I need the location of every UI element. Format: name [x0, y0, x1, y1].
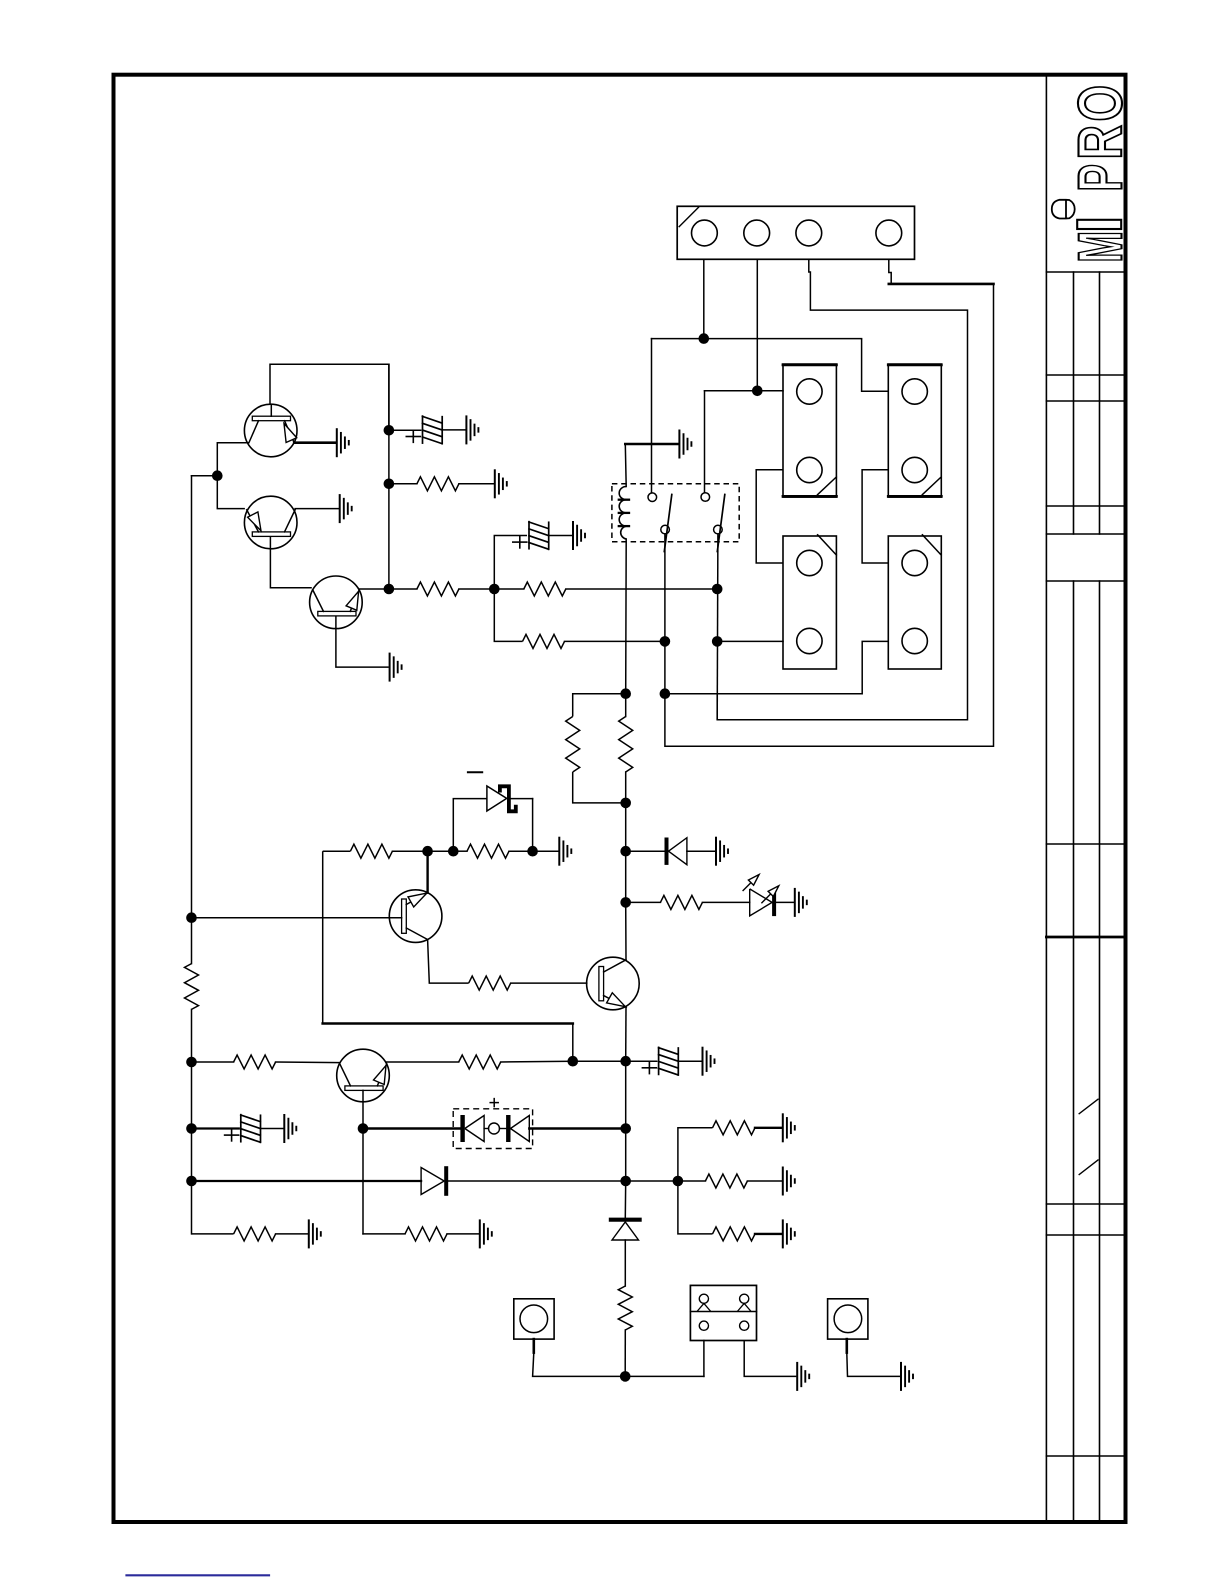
wire Q2 base down to Q3	[270, 536, 311, 587]
relay contact D	[714, 525, 723, 534]
wire P2 pin2 to P4 pin1	[862, 470, 888, 563]
resistor R6	[625, 694, 627, 717]
ground S1	[796, 1363, 798, 1390]
MIPRO logo microphone icon	[1052, 200, 1075, 219]
wire Q1 base left	[217, 443, 249, 476]
ground R1	[494, 470, 496, 497]
node D	[620, 798, 631, 809]
node B	[489, 584, 500, 595]
wire rail	[625, 803, 627, 851]
relay switch arm 1	[664, 495, 672, 552]
diode D4	[421, 1168, 444, 1195]
ground C4	[283, 1115, 285, 1142]
resistor R10	[626, 901, 661, 903]
LED D3 arrows	[743, 877, 757, 891]
relay contact B	[701, 493, 710, 502]
wire rail 1061-1128	[625, 1061, 627, 1128]
resistor R19	[618, 1286, 632, 1330]
node bus y338	[652, 338, 862, 340]
svg-text:O: O	[1067, 85, 1136, 122]
border frame	[114, 75, 1126, 1522]
title block revision slash marks	[1079, 1099, 1098, 1114]
wire rail 1128-1181	[625, 1129, 627, 1182]
ground C2	[572, 522, 574, 549]
wire Q4 emitter to R9	[428, 940, 469, 984]
wire node A to Q2	[217, 476, 245, 509]
connector P3	[783, 536, 836, 669]
row y851 left	[323, 850, 351, 852]
transistor Q5	[587, 957, 640, 1010]
transistor Q4	[389, 890, 442, 943]
title block left border line	[1045, 77, 1047, 1520]
resistor R1	[389, 483, 417, 485]
connector P1	[783, 364, 836, 497]
wire node A to left rail	[192, 475, 218, 477]
wire Q3 emitter to ground	[336, 616, 389, 667]
ground D2	[715, 838, 717, 865]
svg-text:M: M	[1067, 231, 1136, 263]
transistor Q3	[310, 576, 363, 629]
wire Q5 collector up	[625, 902, 627, 959]
capacitor C3	[626, 1060, 657, 1062]
relay contact A	[648, 493, 657, 502]
wire rail 851-902	[625, 851, 627, 902]
resistor R14	[678, 1128, 713, 1181]
connector P4	[888, 536, 941, 669]
footer link line	[127, 1574, 270, 1576]
resistor R12	[192, 1061, 234, 1063]
rail x389	[388, 364, 390, 589]
ground R15	[782, 1168, 784, 1195]
wire relay switch2 down	[716, 534, 719, 720]
wire Q1 collector loop	[270, 364, 389, 430]
node A	[212, 470, 223, 481]
wire J2 down	[532, 1339, 535, 1353]
jack J2	[514, 1299, 554, 1339]
wire S1 pin4 to ground	[744, 1341, 796, 1377]
capacitor C4	[192, 1127, 239, 1129]
wire row851 to row1061 link	[322, 851, 324, 1023]
relay contact C	[661, 525, 670, 534]
ground C3	[702, 1048, 704, 1075]
transistor Q6	[337, 1049, 390, 1102]
connector P2	[888, 364, 941, 497]
transistor Q2	[244, 496, 297, 549]
resistor R5	[573, 694, 626, 717]
relay K1 box	[612, 484, 739, 542]
label minus	[468, 771, 482, 773]
ground R18	[479, 1220, 481, 1247]
optocoupler U1	[358, 1123, 369, 1134]
wire Q6 collector right	[387, 1061, 459, 1063]
wire Q6 base down	[362, 1090, 364, 1234]
transistor Q1	[244, 404, 297, 457]
title block inner column lines	[1073, 272, 1075, 534]
svg-text:P: P	[1067, 164, 1136, 192]
wire P1 pin2 to P3 pin1	[756, 470, 783, 563]
resistor R18	[363, 1233, 405, 1235]
wire Q3 collector right	[359, 588, 389, 590]
wire to relay contact A	[651, 339, 653, 493]
ground D3	[794, 889, 796, 916]
svg-text:R: R	[1067, 125, 1136, 160]
ground Q2	[339, 495, 341, 522]
relay coil L1	[624, 444, 627, 487]
ground R14	[782, 1114, 784, 1141]
wire bus to connector P2 top	[862, 339, 889, 392]
label plus U1	[490, 1102, 498, 1104]
jack J3	[828, 1299, 868, 1339]
ground Q1	[294, 441, 336, 444]
ground Q3	[389, 654, 391, 681]
node E	[620, 1371, 631, 1382]
wire coil bottom to rail	[625, 539, 628, 694]
wire P4 pin2 to rail	[665, 641, 888, 693]
node bus y391	[705, 390, 784, 392]
resistor R3	[494, 588, 524, 590]
row y1181	[192, 1180, 422, 1182]
wire J3 to ground	[845, 1339, 848, 1353]
wire J1 pin4 route	[889, 259, 891, 284]
wire R13 to rail	[573, 1060, 626, 1062]
wire Q4 collector up	[426, 851, 428, 893]
wire node E to S1	[625, 1375, 704, 1377]
wire relay switch1 down	[664, 534, 666, 694]
ground relay	[625, 443, 678, 446]
capacitor C2	[494, 536, 527, 590]
switch S1	[690, 1285, 756, 1340]
resistor R17	[192, 1233, 234, 1235]
ground C1	[465, 416, 467, 443]
diode D2	[626, 850, 665, 852]
resistor R13	[459, 1055, 501, 1069]
connector J1	[677, 206, 914, 259]
ground R17	[308, 1220, 310, 1247]
ground R16	[782, 1220, 784, 1247]
MIPRO logo text	[1077, 220, 1121, 229]
title block horizontal divider lines	[1046, 271, 1124, 273]
ground R8	[558, 838, 560, 865]
resistor R4	[494, 589, 522, 641]
resistor R16	[678, 1181, 713, 1234]
LED D3	[750, 889, 772, 916]
wire J1 pin3 route	[717, 259, 967, 720]
wire P3 pin2 to relay switch	[717, 640, 783, 642]
diode D1 zener	[453, 799, 487, 852]
ground J3	[900, 1363, 902, 1390]
resistor R15	[678, 1180, 706, 1182]
relay switch arm 2	[717, 495, 725, 552]
node C	[620, 688, 631, 699]
resistor R2	[389, 588, 417, 590]
resistor R8	[453, 850, 467, 852]
wire to relay contact B	[704, 391, 706, 493]
wire Q5 emitter down	[625, 1007, 627, 1061]
wire Q2 emitter to ground	[295, 508, 339, 510]
resistor R9	[469, 976, 511, 990]
diode D5 zener	[624, 1181, 626, 1218]
resistor R7	[350, 844, 392, 858]
left rail	[191, 476, 193, 964]
wire J1 pin2 down	[756, 259, 758, 391]
wire Q4 base	[192, 917, 402, 919]
wire J1 pin1 down	[703, 259, 705, 338]
wire S1 pin3 up	[703, 1341, 705, 1377]
capacitor C1	[389, 429, 421, 431]
resistor R11	[185, 964, 199, 1010]
